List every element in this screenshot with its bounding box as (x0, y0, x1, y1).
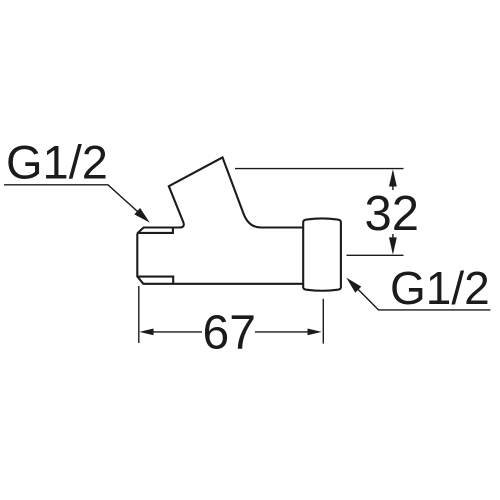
svg-text:G1/2: G1/2 (390, 262, 490, 314)
dimension 32 vertical line upper segment (392, 172, 394, 190)
dimension 67 line left segment (151, 331, 202, 333)
dimension 32 top extension line (235, 168, 404, 170)
arrowhead 32 top (389, 169, 397, 186)
svg-text:32: 32 (365, 187, 420, 241)
dimension 67 left extension line (138, 286, 140, 343)
leader line for top-left G1/2 (4, 185, 140, 214)
thread root line bottom (138, 277, 173, 284)
dimension 32 bottom extension line (347, 254, 404, 256)
dimension 67 line right segment (255, 331, 310, 333)
dimension 32 vertical line lower segment (392, 234, 394, 252)
arrowhead 32 bottom (389, 237, 397, 254)
leader line for bottom-right G1/2 (356, 287, 490, 310)
arrowhead leader top-left G1/2 (134, 208, 150, 223)
arrowhead leader bottom-right G1/2 (346, 278, 361, 293)
arrowhead 67 right (308, 329, 322, 336)
fitting body left face and bottom outline (137, 233, 303, 283)
svg-text:G1/2: G1/2 (6, 136, 108, 189)
dimension 67 right extension line (322, 299, 324, 344)
fitting body top outline with diagonal branch (137, 157, 303, 233)
arrowhead 67 left (139, 329, 153, 336)
thread root line top (138, 228, 173, 233)
svg-text:67: 67 (203, 307, 256, 360)
right end cap (303, 218, 341, 290)
